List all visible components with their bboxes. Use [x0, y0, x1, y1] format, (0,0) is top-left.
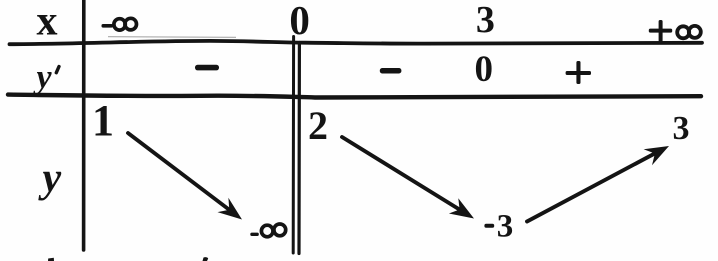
double vertical bar at x=0 : right line: [297, 43, 301, 254]
label -infinity (x row) : minus: [102, 24, 114, 28]
label +infinity (x row) : plus: [649, 29, 672, 33]
minus sign (y' row, interval -inf..0): [195, 65, 219, 71]
svg-text:3: 3: [497, 209, 514, 245]
arrow: y decreasing on (-inf,0): [128, 133, 242, 220]
svg-text:0: 0: [475, 49, 494, 90]
label +infinity (x row) : infinity loops: [677, 26, 701, 38]
scan artifact bottom-centre: [203, 257, 209, 261]
svg-text:x: x: [37, 0, 58, 45]
minimum value -3 at x=3 : minus: [484, 224, 494, 228]
svg-text:y: y: [38, 156, 62, 202]
minus sign (y' row, interval 0..3): [380, 68, 402, 74]
faint scan double-line above top rule: [108, 36, 236, 39]
arrow: y decreasing on (0,3): [342, 137, 474, 219]
double vertical bar at x=0 : left line: [292, 37, 295, 254]
svg-text:3: 3: [476, 0, 495, 41]
svg-text:2: 2: [308, 103, 328, 148]
wire: left vertical border of table: [82, 0, 86, 250]
svg-text:0: 0: [289, 0, 310, 43]
limit -infinity at 0- : infinity loops: [261, 224, 285, 237]
plus sign (y' row, interval 3..+inf): [566, 71, 591, 75]
svg-text:3: 3: [673, 110, 690, 147]
limit -infinity at 0- : minus: [250, 233, 258, 236]
scan artifact bottom-left: [48, 258, 54, 261]
label -infinity (x row) : infinity loops: [114, 18, 137, 30]
svg-text:y: y: [33, 59, 53, 96]
arrow: y increasing on (3,+inf): [527, 146, 669, 222]
wire: horizontal rule below y' row: [8, 95, 701, 98]
wire: horizontal rule below x row: [10, 41, 703, 44]
svg-text:1: 1: [92, 96, 114, 145]
